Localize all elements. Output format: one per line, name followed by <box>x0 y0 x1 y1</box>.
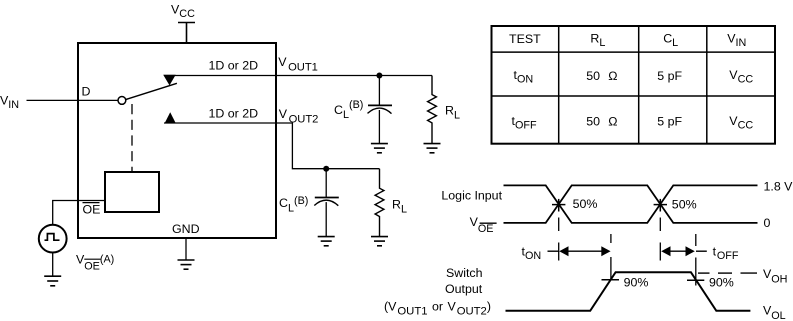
dashed marker line A <box>558 218 560 261</box>
VCC power rail symbol <box>178 23 195 44</box>
ground CL1 <box>371 144 388 153</box>
wire pulse source to ground <box>52 253 54 277</box>
crossing tick 1 <box>552 204 565 206</box>
svg-text:VOE: VOE <box>470 215 494 235</box>
svg-text:CL: CL <box>663 32 678 50</box>
svg-text:1D or 2D: 1D or 2D <box>209 107 259 121</box>
svg-text:RL: RL <box>445 104 460 122</box>
svg-text:VOE(A): VOE(A) <box>76 253 114 273</box>
dashed marker line B <box>610 234 612 281</box>
resistor RL2 <box>375 169 384 237</box>
svg-text:1D or 2D: 1D or 2D <box>209 59 259 73</box>
svg-text:tOFF: tOFF <box>512 114 537 132</box>
dashed marker line D <box>695 234 697 286</box>
test conditions table <box>492 26 776 144</box>
resistor RL1 <box>428 76 437 144</box>
switch arm <box>126 83 177 99</box>
svg-text:CL(B): CL(B) <box>334 99 363 121</box>
tOFF arrow <box>661 246 707 256</box>
svg-text:50%: 50% <box>573 197 598 211</box>
wire OUT1 <box>164 75 432 77</box>
wire OE input <box>53 201 105 225</box>
svg-text:90%: 90% <box>709 276 734 290</box>
logic input waveform trace 2 <box>504 185 758 223</box>
90% tick rise <box>602 279 620 281</box>
ground GND pin <box>185 239 187 260</box>
svg-text:Switch: Switch <box>446 266 483 280</box>
svg-text:VOUT1: VOUT1 <box>278 55 318 74</box>
OE control block <box>105 172 159 212</box>
svg-text:VOL: VOL <box>763 304 786 321</box>
svg-text:CL(B): CL(B) <box>279 195 308 214</box>
crossing tick 2 <box>654 204 667 206</box>
svg-text:tOFF: tOFF <box>713 244 739 262</box>
ground RL2 <box>371 237 388 246</box>
90% tick fall <box>687 279 704 281</box>
node junction J2 <box>323 166 329 172</box>
svg-text:50Ω: 50Ω <box>586 115 617 129</box>
switch pole circle <box>118 97 126 105</box>
svg-text:0: 0 <box>764 216 771 230</box>
svg-text:VCC: VCC <box>729 68 753 86</box>
dashed marker line C <box>659 218 661 261</box>
pulse source VOE <box>39 225 67 253</box>
ground pulse source <box>44 276 61 286</box>
svg-text:VCC: VCC <box>171 3 195 21</box>
svg-text:VCC: VCC <box>729 114 753 132</box>
capacitor CL1 <box>368 76 393 144</box>
svg-text:1.8 V: 1.8 V <box>764 180 793 194</box>
DUT box <box>78 43 276 238</box>
dashed control link <box>131 104 133 172</box>
svg-text:VIN: VIN <box>727 32 746 50</box>
svg-text:Output: Output <box>445 282 483 296</box>
svg-text:VIN: VIN <box>0 94 19 112</box>
svg-text:(VOUT1 or VOUT2): (VOUT1 or VOUT2) <box>384 300 491 318</box>
VOH dashed level line <box>698 272 757 274</box>
switch output waveform <box>506 272 751 311</box>
svg-text:RL: RL <box>590 32 605 50</box>
ground RL1 <box>424 144 441 153</box>
svg-text:5 pF: 5 pF <box>657 115 682 129</box>
contact triangle upper (1D/2D) <box>163 75 176 86</box>
svg-text:tON: tON <box>514 68 534 86</box>
svg-text:OE: OE <box>83 203 101 217</box>
wire VIN input <box>27 99 119 101</box>
svg-text:GND: GND <box>172 222 200 236</box>
svg-text:D: D <box>82 85 91 99</box>
wire OUT2 <box>164 123 380 169</box>
svg-text:Logic Input: Logic Input <box>441 188 502 202</box>
svg-text:tON: tON <box>522 244 542 262</box>
node junction J1 <box>376 73 382 79</box>
capacitor CL2 <box>314 169 339 237</box>
logic input waveform trace 1 <box>504 185 758 223</box>
contact triangle lower (1D/2D) <box>165 112 176 123</box>
svg-text:90%: 90% <box>624 275 649 289</box>
ground CL2 <box>318 237 335 246</box>
svg-text:50%: 50% <box>672 198 697 212</box>
svg-text:50Ω: 50Ω <box>586 69 617 83</box>
svg-text:VOH: VOH <box>763 267 787 285</box>
tON arrow <box>548 246 611 256</box>
svg-text:TEST: TEST <box>509 32 541 46</box>
svg-text:RL: RL <box>392 198 407 216</box>
svg-text:5 pF: 5 pF <box>657 69 682 83</box>
